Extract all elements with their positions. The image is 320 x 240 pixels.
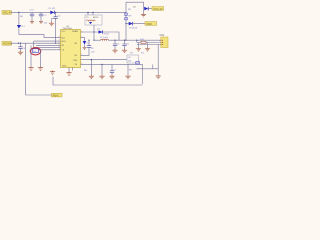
junction node F — [20, 43, 21, 44]
wire T1 top stub — [88, 12, 93, 15]
svg-text:ACN-IN: ACN-IN — [3, 42, 12, 46]
wire U1 right pin br — [81, 37, 85, 41]
net label VDD — [145, 22, 157, 26]
ground G4 — [38, 67, 43, 71]
svg-text:2: 2 — [59, 49, 60, 51]
junction node K — [101, 64, 102, 65]
svg-text:NR: NR — [20, 16, 24, 18]
svg-text:DRAIN: DRAIN — [72, 30, 79, 33]
capacitor CX1 — [30, 9, 35, 23]
resistor R7 — [136, 62, 140, 64]
junction node C — [93, 31, 94, 32]
svg-text:ACL: ACL — [62, 36, 66, 39]
ground G10 — [145, 47, 150, 51]
net label VCC — [152, 7, 164, 11]
wire freewheel branch — [81, 32, 120, 40]
ground G8 — [122, 49, 127, 53]
svg-text:CMP: CMP — [73, 60, 78, 62]
connector CN1 — [159, 35, 168, 47]
svg-text:FB-N: FB-N — [53, 94, 59, 97]
wire U1 right pin comp — [81, 63, 143, 65]
wire N rail to IC — [11, 42, 60, 44]
op IC U1 — [61, 26, 81, 68]
wire below varistor — [19, 29, 61, 38]
svg-text:D1 M7: D1 M7 — [49, 8, 56, 10]
wire to VDD label — [126, 23, 145, 25]
diode D3 — [129, 22, 138, 30]
ground G7 — [112, 49, 117, 53]
svg-text:VCC: VCC — [62, 31, 67, 33]
wire output rail — [94, 39, 161, 41]
svg-text:VCC-12: VCC-12 — [153, 7, 163, 11]
junction node G — [114, 40, 115, 41]
svg-text:4: 4 — [59, 36, 60, 38]
svg-text:THX208H: THX208H — [63, 28, 73, 30]
svg-text:GND: GND — [62, 66, 67, 68]
ground G5 (U1 gnd) — [66, 72, 71, 76]
svg-text:ACN: ACN — [62, 40, 67, 43]
svg-text:ACL-IN: ACL-IN — [3, 11, 12, 15]
diode D2 — [133, 6, 148, 10]
svg-text:EE10: EE10 — [93, 17, 99, 19]
wire to VCC label — [149, 8, 153, 10]
wire varistor drop — [18, 12, 20, 25]
resistor R8 — [125, 9, 132, 15]
wire comp drop — [137, 64, 159, 84]
annotation red circle — [30, 48, 40, 55]
wire VCC drop — [55, 12, 57, 43]
wire SW node — [93, 25, 95, 40]
svg-text:5: 5 — [81, 54, 82, 56]
ground G12 — [99, 75, 104, 79]
svg-text:SS34: SS34 — [104, 34, 110, 36]
svg-text:L1 1mH: L1 1mH — [100, 37, 108, 39]
optocoupler U2 box — [127, 55, 139, 63]
wire U1 bottom pins — [69, 68, 73, 72]
U1 pin numbers — [59, 32, 83, 65]
wire CS drop — [33, 41, 35, 49]
transformer T1 box — [85, 15, 102, 25]
wire R1 grounds — [31, 45, 41, 66]
ground (under D2 node) — [141, 9, 146, 17]
net label ACN (left middle) — [2, 41, 12, 45]
capacitor C3 — [53, 15, 61, 18]
wire IC left pin rows — [34, 41, 61, 50]
ground G9 — [136, 47, 141, 51]
wire N loop down — [26, 43, 52, 95]
wire VCC chain vertical — [126, 2, 144, 40]
ground G3 — [28, 67, 33, 71]
svg-text:VDD: VDD — [146, 22, 152, 26]
net label ACL1 (top left) — [2, 11, 12, 15]
svg-text:D3 4148: D3 4148 — [129, 28, 138, 30]
ground (under C3) — [49, 18, 56, 25]
wire feedback rail mid — [91, 60, 128, 75]
capacitor C4 — [18, 43, 22, 51]
junction node C2 — [93, 40, 94, 41]
junction node H — [124, 40, 125, 41]
junction node A — [18, 12, 19, 13]
svg-text:8: 8 — [81, 32, 82, 34]
ground G14 — [125, 75, 130, 79]
capacitor C6 — [122, 40, 129, 49]
diode D4 — [97, 29, 110, 36]
net label bottom — [52, 93, 63, 97]
resistor R9 — [125, 15, 132, 20]
ground G6 (left of U1) — [50, 71, 55, 75]
inductor L1 — [100, 37, 109, 40]
junction node E — [18, 43, 19, 44]
zener ZD1 — [83, 41, 91, 50]
junction node C3 — [125, 40, 126, 41]
ground G15 — [156, 75, 161, 79]
background — [0, 0, 171, 100]
wire to CN pin2 — [137, 40, 159, 47]
wire top rail L — [11, 11, 126, 13]
junction node I — [136, 40, 137, 41]
capacitor CX2 — [39, 12, 48, 24]
wire bottom return rail — [53, 44, 158, 85]
junction node B — [55, 12, 56, 13]
resistor R10 — [140, 39, 146, 43]
ground (under C4) — [18, 51, 23, 55]
ground G13 — [109, 75, 114, 79]
varistor RV1 — [17, 25, 26, 29]
ground G11 — [89, 75, 94, 79]
diode D1 — [49, 8, 56, 14]
junction node D — [125, 23, 126, 24]
wire U1 right pin fb — [81, 40, 90, 55]
resistor R1 (current sense, circled) — [33, 49, 39, 53]
junction node J — [91, 59, 92, 60]
capacitor C7 — [110, 70, 117, 73]
capacitor C5 — [113, 40, 120, 49]
